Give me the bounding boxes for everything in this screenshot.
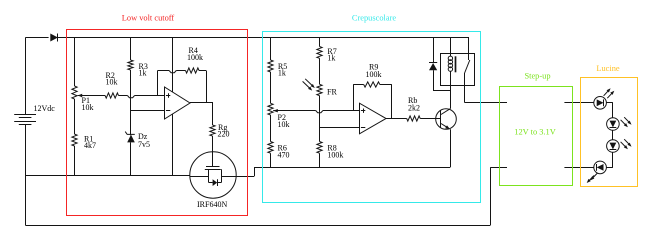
svg-text:1k: 1k	[278, 69, 286, 78]
svg-text:10k: 10k	[106, 77, 118, 86]
svg-text:1k: 1k	[139, 69, 147, 78]
svg-text:Low volt cutoff: Low volt cutoff	[122, 13, 175, 22]
svg-text:Crepuscolare: Crepuscolare	[352, 13, 396, 22]
svg-text:4k7: 4k7	[84, 141, 96, 150]
svg-text:IRF640N: IRF640N	[197, 200, 227, 209]
svg-text:100k: 100k	[187, 53, 203, 62]
svg-text:Step-up: Step-up	[524, 72, 550, 81]
svg-text:Lucine: Lucine	[596, 64, 620, 73]
svg-text:470: 470	[278, 151, 290, 160]
svg-text:100k: 100k	[366, 70, 382, 79]
svg-text:1k: 1k	[327, 54, 335, 63]
svg-text:100k: 100k	[327, 151, 343, 160]
svg-text:2k2: 2k2	[408, 104, 420, 113]
svg-text:7v5: 7v5	[138, 140, 150, 149]
svg-text:12V to 3.1V: 12V to 3.1V	[514, 128, 556, 137]
svg-text:FR: FR	[327, 88, 337, 97]
svg-text:12Vdc: 12Vdc	[34, 104, 56, 113]
svg-text:10k: 10k	[82, 103, 94, 112]
svg-text:10k: 10k	[278, 120, 290, 129]
svg-text:220: 220	[218, 130, 230, 139]
